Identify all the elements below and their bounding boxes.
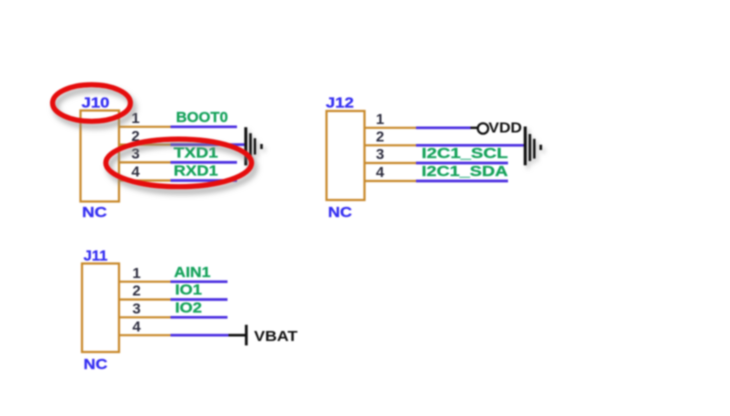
net I2C1_SCL wire (416, 162, 508, 165)
net TXD1 wire (171, 161, 238, 164)
svg-text:IO2: IO2 (175, 301, 202, 317)
svg-text:NC: NC (82, 204, 107, 221)
svg-text:1: 1 (376, 111, 384, 128)
svg-text:1: 1 (131, 110, 139, 127)
svg-text:4: 4 (131, 164, 140, 181)
net wire to ground from J10 pin 2 (171, 143, 245, 146)
J11 pin 4 stub wire (119, 334, 171, 336)
J10 pin 1 stub wire (118, 126, 171, 128)
J10 pin 3 stub wire (118, 161, 171, 163)
J11 pin 3 stub wire (119, 316, 171, 318)
svg-text:3: 3 (132, 301, 140, 318)
svg-text:J12: J12 (326, 95, 354, 112)
svg-text:3: 3 (376, 146, 384, 163)
J10 pin 4 stub wire (118, 179, 171, 181)
svg-text:J10: J10 (82, 95, 110, 112)
J11 pin 1 stub wire (119, 281, 171, 283)
ground symbol at J10 pin 2 (246, 127, 262, 165)
svg-text:RXD1: RXD1 (174, 164, 218, 180)
svg-text:I2C1_SCL: I2C1_SCL (422, 146, 509, 162)
net IO2 wire (171, 316, 228, 319)
VBAT power symbol (229, 325, 247, 346)
J12 pin 3 stub wire (364, 162, 416, 164)
annotation red ellipse around TXD1 RXD1 (106, 139, 252, 187)
annotation red ellipse around J10 label (53, 85, 131, 122)
J11 pin 2 stub wire (119, 298, 171, 300)
net RXD1 wire (171, 179, 238, 182)
svg-text:TXD1: TXD1 (174, 146, 218, 162)
net I2C1_SDA wire (416, 180, 508, 183)
svg-text:VDD: VDD (489, 121, 523, 137)
svg-text:2: 2 (132, 283, 140, 300)
J12 pin 2 stub wire (364, 144, 416, 146)
J10 pin 2 stub wire (118, 144, 171, 146)
net wire to VBAT from J11 pin 4 (171, 334, 229, 337)
svg-text:NC: NC (84, 356, 108, 373)
svg-text:AIN1: AIN1 (174, 265, 211, 281)
svg-text:I2C1_SDA: I2C1_SDA (422, 164, 509, 180)
net wire to VDD from J12 pin 1 (416, 126, 471, 129)
svg-text:3: 3 (131, 146, 139, 163)
net wire to ground from J12 pin 2 (416, 144, 524, 147)
J12 pin 1 stub wire (364, 127, 416, 129)
connector J10 (81, 111, 120, 202)
svg-text:J11: J11 (84, 248, 108, 265)
svg-text:4: 4 (132, 318, 141, 335)
J12 pin 4 stub wire (364, 180, 416, 182)
svg-text:BOOT0: BOOT0 (176, 110, 228, 126)
svg-text:1: 1 (132, 265, 140, 282)
svg-text:4: 4 (376, 164, 385, 181)
svg-text:VBAT: VBAT (254, 328, 298, 345)
ground symbol at J12 pin 2 (525, 127, 541, 166)
svg-text:IO1: IO1 (175, 283, 202, 299)
connector J11 (82, 264, 119, 353)
connector J12 (327, 111, 365, 200)
svg-text:NC: NC (328, 204, 352, 221)
net IO1 wire (171, 298, 228, 301)
svg-text:2: 2 (376, 129, 384, 146)
VDD power symbol (471, 123, 489, 133)
net AIN1 wire (171, 280, 228, 283)
net BOOT0 wire (171, 125, 238, 128)
